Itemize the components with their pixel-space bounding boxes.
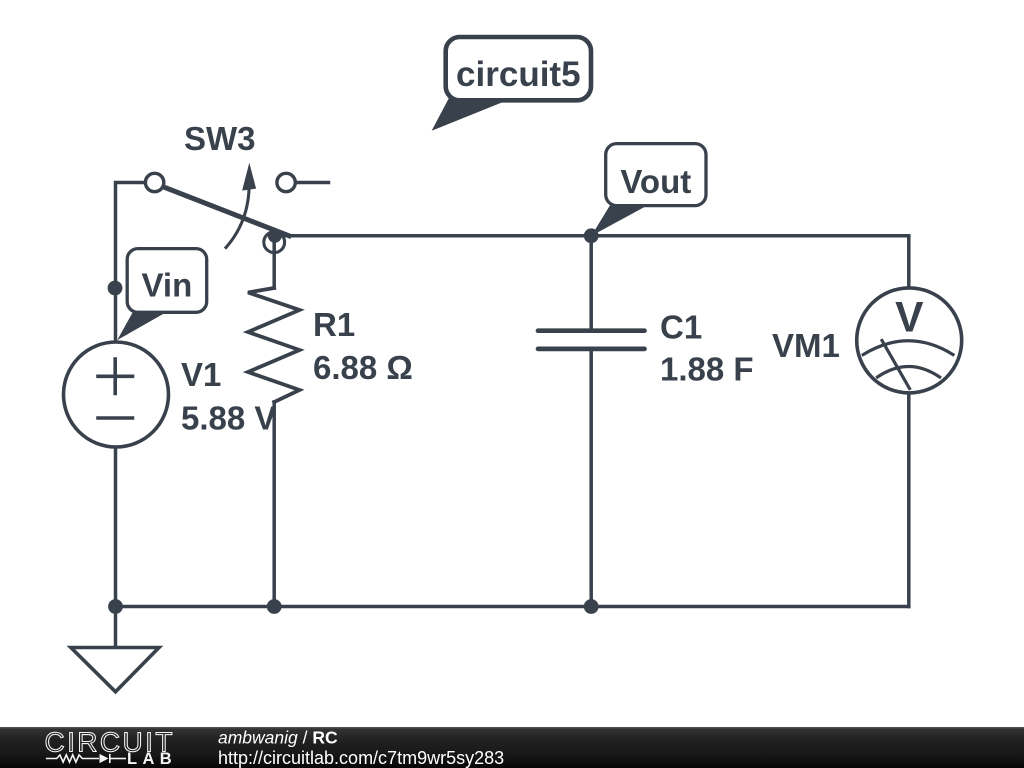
flag Vin box <box>127 249 207 313</box>
footer bar <box>0 727 1024 768</box>
switch SW3 right throw terminal <box>277 173 295 191</box>
switch SW3 actuation arrow <box>226 178 249 248</box>
node dot Vin anchor on left rail <box>108 281 123 296</box>
node dot ground-left junction <box>108 599 123 614</box>
svg-text:VM1: VM1 <box>772 327 840 364</box>
svg-text:5.88 V: 5.88 V <box>181 400 276 437</box>
VM1 meter upper arc <box>863 341 953 355</box>
wire VM1 bottom lead <box>907 392 911 607</box>
wire C1 bottom lead <box>589 349 593 607</box>
wire VM1 top lead <box>907 236 911 290</box>
switch SW3 left throw terminal <box>145 173 163 191</box>
node dot R1 bottom junction <box>267 599 282 614</box>
wire bottom rail (ground net) <box>116 605 909 609</box>
voltage source V1 body <box>64 342 169 447</box>
V1 minus sign <box>98 416 133 420</box>
svg-text:Vout: Vout <box>620 163 691 200</box>
svg-text:V1: V1 <box>181 356 221 393</box>
voltmeter VM1 body <box>857 288 962 393</box>
resistor R1 zigzag <box>248 288 300 402</box>
node dot Vout junction on top rail <box>584 228 599 243</box>
switch SW3 blade (diagonal) <box>161 186 289 236</box>
wire top rail (switch pole to VM1 corner, node Vout) <box>276 234 909 238</box>
svg-text:V: V <box>895 295 924 342</box>
svg-text:circuit5: circuit5 <box>456 55 581 94</box>
svg-text:http://circuitlab.com/c7tm9wr5: http://circuitlab.com/c7tm9wr5sy283 <box>218 748 504 768</box>
wire V1 bottom lead <box>114 446 118 607</box>
node junction dot at switch pole <box>268 229 282 243</box>
flag Vout tail <box>591 202 647 236</box>
flag Vin tail <box>117 309 166 341</box>
svg-text:6.88 Ω: 6.88 Ω <box>313 349 413 386</box>
svg-text:ambwanig / RC: ambwanig / RC <box>218 728 338 748</box>
svg-text:Vin: Vin <box>142 267 193 304</box>
wire R1 top stub from switch pole <box>272 243 276 288</box>
node dot C1 bottom junction <box>584 599 599 614</box>
ground symbol <box>71 648 159 692</box>
capacitor C1 top plate <box>538 328 645 333</box>
flag Vout box <box>606 144 706 206</box>
wire right throw stub of switch <box>296 181 329 185</box>
svg-text:LAB: LAB <box>127 750 177 768</box>
svg-text:R1: R1 <box>313 306 355 343</box>
svg-text:C1: C1 <box>660 309 702 346</box>
callout circuit5 tail <box>432 96 508 131</box>
VM1 meter needle <box>882 341 910 389</box>
wire left rail top segment (V1 top to switch) <box>116 183 147 342</box>
switch SW3 pole terminal ring <box>264 232 285 253</box>
VM1 meter lower arc <box>878 367 940 378</box>
wire ground stub <box>114 607 118 648</box>
svg-text:SW3: SW3 <box>184 120 256 157</box>
capacitor C1 bottom plate <box>538 347 645 352</box>
V1 plus sign <box>98 359 133 394</box>
CircuitLab logo resistor-diode squiggle <box>46 754 126 763</box>
svg-text:1.88 F: 1.88 F <box>660 351 754 388</box>
callout circuit5 box <box>446 37 591 100</box>
wire C1 top lead <box>589 236 593 331</box>
wire R1 bottom to bottom rail <box>272 402 276 607</box>
